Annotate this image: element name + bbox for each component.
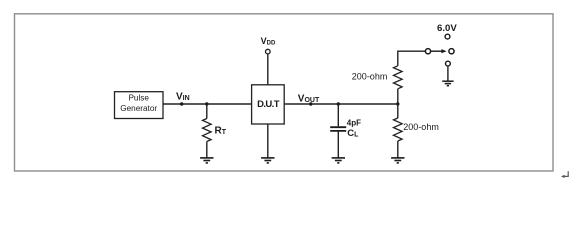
D.U.T box [252, 85, 285, 124]
resistor 200-ohm pull-down [394, 118, 403, 141]
node RT junction dot [205, 102, 208, 105]
wire VOUT node down to CL [337, 104, 339, 126]
svg-text:6.0V: 6.0V [437, 23, 457, 34]
pulse generator box [115, 92, 164, 119]
svg-text:200-ohm: 200-ohm [403, 122, 439, 132]
switch pole terminal [425, 49, 430, 54]
wire pulse generator to D.U.T input [163, 103, 252, 105]
ground (200-ohm pull-down) [391, 158, 404, 163]
svg-text:Generator: Generator [120, 104, 157, 113]
wire RT to ground [206, 142, 208, 158]
line-break mark [561, 171, 568, 178]
wire VDD terminal to D.U.T top [267, 54, 269, 85]
svg-text:4pF: 4pF [347, 118, 361, 127]
ground (CL) [332, 158, 345, 163]
switch ground contact [446, 61, 451, 66]
ground (switch) [442, 81, 453, 86]
node VOUT junction dot [309, 102, 312, 105]
ground (RT) [200, 158, 213, 163]
resistor RT [203, 119, 212, 142]
node CL junction dot [337, 102, 340, 105]
switch blade arrow [431, 49, 447, 53]
wire VIN node down to RT [206, 104, 208, 119]
wire pull-down resistor to ground [397, 141, 399, 158]
wire D.U.T output to load network [284, 103, 398, 105]
wire top of 200-ohm pull-up to switch [398, 51, 426, 66]
switch open-position contact [449, 49, 454, 54]
wire switch ground contact to ground [447, 66, 449, 81]
node VIN junction dot [180, 102, 183, 105]
svg-text:Pulse: Pulse [128, 94, 149, 103]
svg-text:D.U.T: D.U.T [257, 99, 280, 110]
resistor 200-ohm pull-up [394, 66, 403, 89]
wire load node down to 200-ohm pull-down [397, 104, 399, 118]
switch 6.0V contact [445, 34, 450, 39]
svg-text:200-ohm: 200-ohm [352, 71, 388, 81]
wire D.U.T bottom to ground [267, 124, 269, 158]
ground (D.U.T) [261, 158, 274, 163]
capacitor CL [330, 127, 346, 131]
wire pull-up resistor to VOUT node [397, 89, 399, 104]
junction dot at load node [396, 102, 399, 105]
VDD terminal circle [266, 49, 271, 54]
wire CL to ground [337, 132, 339, 158]
